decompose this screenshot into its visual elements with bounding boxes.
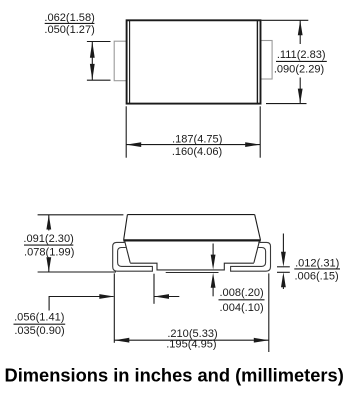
dim .012/.006 arrows xyxy=(281,234,286,290)
caption xyxy=(5,365,344,386)
dim .056/.035 leader and arrows xyxy=(49,294,179,310)
svg-text:.160(4.06): .160(4.06) xyxy=(172,146,222,158)
side view body top edge xyxy=(127,214,254,216)
dim .210/.195 text xyxy=(166,328,217,350)
side view left lower slope xyxy=(125,241,131,262)
dim .056/.035 text xyxy=(14,312,66,338)
top view right tab xyxy=(261,41,273,80)
dim .187/.160 extension lines xyxy=(126,106,260,157)
svg-text:.004(.10): .004(.10) xyxy=(219,302,263,314)
svg-text:.091(2.30): .091(2.30) xyxy=(23,233,73,245)
svg-text:.090(2.29): .090(2.29) xyxy=(274,63,324,75)
svg-text:Dimensions in inches and (mill: Dimensions in inches and (millimeters) xyxy=(5,365,344,386)
side view right upper slope xyxy=(255,215,261,240)
svg-text:.050(1.27): .050(1.27) xyxy=(44,24,94,36)
dim .111/.090 extension lines xyxy=(262,20,309,103)
top view body xyxy=(127,20,261,103)
dim .062/.050 double arrow xyxy=(90,42,95,81)
svg-text:.187(4.75): .187(4.75) xyxy=(172,134,222,146)
dim .091/.078 arrows xyxy=(46,215,51,272)
svg-text:.111(2.83): .111(2.83) xyxy=(277,49,326,61)
dim .187/.160 text xyxy=(172,134,223,159)
top view left end line xyxy=(129,20,131,103)
svg-text:.006(.15): .006(.15) xyxy=(294,270,338,282)
side view right lead xyxy=(231,242,271,271)
dim .062/.050 text xyxy=(44,12,94,36)
side view seating plane line xyxy=(166,272,219,274)
extension line at left lead edge xyxy=(113,273,115,342)
svg-text:.012(.31): .012(.31) xyxy=(295,257,339,269)
dim .210/.195 dimension line xyxy=(114,338,268,343)
side view left upper slope xyxy=(124,215,128,240)
top view left tab xyxy=(114,41,126,80)
dim .062/.050 extension lines xyxy=(87,42,111,81)
dim .008/.004 arrows xyxy=(211,244,216,297)
dim .187/.160 dimension line xyxy=(126,142,260,147)
side view left lead xyxy=(113,242,153,271)
dim .012/.006 ticks xyxy=(277,267,290,273)
svg-text:.035(0.90): .035(0.90) xyxy=(14,325,64,337)
svg-text:.195(4.95): .195(4.95) xyxy=(166,338,216,350)
dim .111/.090 text xyxy=(274,49,327,75)
dim .091/.078 extension lines xyxy=(38,215,124,272)
extension line at left lead tip xyxy=(153,274,155,304)
svg-text:.062(1.58): .062(1.58) xyxy=(44,12,94,24)
svg-text:.008(.20): .008(.20) xyxy=(219,287,263,299)
side view right lower slope xyxy=(254,241,260,262)
top view right end line xyxy=(256,20,258,103)
svg-text:.056(1.41): .056(1.41) xyxy=(14,312,64,324)
dim .008/.004 text xyxy=(219,287,265,314)
side view mold parting line xyxy=(123,239,260,241)
side view body underside xyxy=(130,263,254,270)
dim .012/.006 text xyxy=(294,257,340,282)
dim .091/.078 text xyxy=(23,233,74,259)
dim .111/.090 arrows xyxy=(298,20,303,103)
svg-text:.078(1.99): .078(1.99) xyxy=(24,247,74,259)
extension line at right lead edge xyxy=(268,273,270,352)
